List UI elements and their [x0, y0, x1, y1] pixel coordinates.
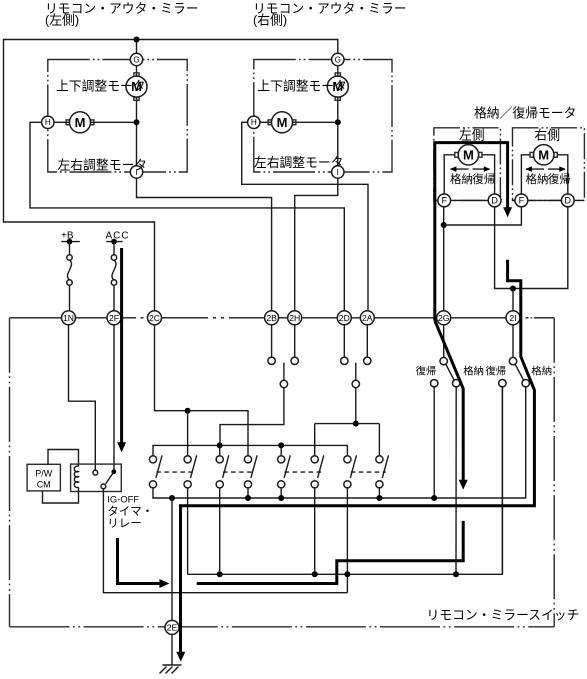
- svg-text:D: D: [565, 195, 572, 205]
- connector 2H: [288, 311, 302, 325]
- contact: retract (right): [522, 380, 529, 387]
- svg-text:格納: 格納: [531, 365, 552, 378]
- ground symbol: [163, 664, 182, 666]
- terminal F (right retract): [515, 194, 528, 207]
- node: retract contact on lower line: [453, 571, 459, 577]
- connector 2F: [107, 311, 121, 325]
- svg-text:リモコン・ミラースイッチ: リモコン・ミラースイッチ: [427, 607, 580, 622]
- wire: H to left/right motor to center node (left mirror): [54, 121, 69, 123]
- bold: lower route from relay line to retract contact: [197, 521, 464, 584]
- wire: 1N down to relay fixed contact: [69, 325, 96, 471]
- terminal H (right): [248, 116, 260, 128]
- svg-text:復帰: 復帰: [485, 365, 506, 378]
- contact: return (left): [431, 380, 438, 387]
- svg-text:2B: 2B: [266, 313, 277, 323]
- terminal G (left): [130, 53, 142, 65]
- contact: retract (left): [453, 380, 460, 387]
- connector 2C: [148, 311, 162, 325]
- svg-text:(左側): (左側): [45, 12, 79, 27]
- wire: H to motor to node (right mirror): [260, 121, 271, 123]
- wire: right H to 2A: [242, 122, 368, 310]
- wire: left D down, across, up to right D: [495, 206, 568, 288]
- switch pole 2: contacts and blade: [184, 456, 191, 463]
- wire 2I to common contact: [512, 325, 514, 358]
- wire: feed from 2C up left side and across top to G terminals: [4, 40, 338, 311]
- wire: down to pole 2: [187, 411, 189, 456]
- svg-text:(右側): (右側): [253, 12, 287, 27]
- IG-OFF timer relay box: [71, 464, 122, 491]
- svg-text:左側: 左側: [459, 128, 485, 143]
- selector blade (neutral): [355, 363, 357, 381]
- svg-text:格納: 格納: [450, 172, 473, 186]
- node: pole 3 on lower line: [217, 571, 223, 577]
- wire: retract contact down to lower line: [455, 387, 457, 574]
- wire: BH common down-left to top bus: [220, 388, 284, 446]
- svg-text:復帰: 復帰: [416, 365, 437, 378]
- wire: return contact down to bottom bus: [433, 387, 435, 498]
- terminal I (left): [130, 166, 142, 178]
- svg-text:上下調整モータ: 上下調整モータ: [257, 79, 347, 94]
- bold: ACC feed down to relay (arrow): [120, 248, 123, 445]
- relay moving terminal: [101, 484, 106, 489]
- P/W CM box: [27, 464, 60, 491]
- node: feed to pole 2: [185, 408, 191, 414]
- connector 2A: [360, 311, 374, 325]
- node: 2E tap on bottom bus: [169, 495, 175, 501]
- wire: left F down to 2G with junction: [443, 206, 445, 310]
- wire: left H to 2D: [30, 122, 344, 310]
- up/down adjust motor (left): [134, 73, 139, 76]
- stubs poles 4,5,8 to bottom bus: [247, 488, 249, 498]
- relay coil: [74, 466, 78, 487]
- switch pole 1: contacts and blade: [149, 456, 156, 463]
- mechanical linkage dashes: [156, 471, 194, 473]
- connector 2B: [265, 311, 279, 325]
- top bus of switch bank: [153, 445, 347, 455]
- relay pivot: [111, 469, 116, 474]
- svg-text:左右調整モータ: 左右調整モータ: [58, 158, 148, 173]
- svg-text:G: G: [133, 55, 139, 64]
- wire: F junction across to right F: [444, 206, 522, 225]
- switch pole 6: contacts and blade: [311, 456, 318, 463]
- node: center junction right mirror: [335, 119, 341, 125]
- mirror switch box: left edge (chain): [9, 318, 11, 627]
- up/down adjust motor (right): [335, 73, 340, 76]
- wire: distribution line to poles 6 and 8: [315, 423, 380, 425]
- long wires poles 2,3,6,7 down to lower line: [187, 488, 189, 574]
- blade closed to katakana-kakunou contact: [446, 364, 454, 380]
- svg-text:2E: 2E: [167, 622, 178, 632]
- svg-text:左右調整モータ: 左右調整モータ: [254, 155, 344, 170]
- left mirror box (chain line): [48, 60, 187, 173]
- svg-text:2F: 2F: [109, 313, 119, 323]
- wire: 2F down to relay pivot: [113, 325, 115, 472]
- connector 1N: [62, 311, 76, 325]
- terminal G (right): [332, 53, 344, 65]
- svg-text:ACC: ACC: [106, 231, 130, 242]
- switch pole 3: contacts and blade: [216, 456, 223, 463]
- terminal F (left retract): [438, 194, 451, 207]
- svg-text:M: M: [538, 147, 549, 162]
- wire 2A to contact: [366, 325, 368, 357]
- wire: 2C down to pole feed line: [155, 325, 249, 456]
- left retract box (chain line): [434, 128, 501, 201]
- svg-text:H: H: [45, 118, 51, 127]
- left/right adjust motor (right): [268, 120, 271, 125]
- node: F junction: [441, 222, 447, 228]
- direction arrows (right box): [526, 168, 544, 170]
- wire: G to motor to node to I (right mirror): [337, 66, 339, 77]
- node: center junction left mirror: [134, 119, 140, 125]
- terminal D (right retract): [561, 194, 574, 207]
- contact: return (right): [499, 380, 506, 387]
- svg-text:2I: 2I: [509, 313, 516, 323]
- terminal H (left): [42, 116, 54, 128]
- wire 2G to common contact: [443, 325, 445, 358]
- connector 2D: [337, 311, 351, 325]
- retract/return motor (left): [455, 152, 458, 157]
- switch pole 8: contacts and blade: [376, 456, 383, 463]
- node: return contact on bottom bus: [431, 495, 437, 501]
- wire: left G stub: [136, 40, 138, 54]
- bold: left retract box loop with down arrow: [435, 143, 508, 321]
- terminal I (right): [332, 166, 344, 178]
- wire: P/W CM to relay coil (top loop): [48, 450, 79, 467]
- svg-text:格納／復帰モータ: 格納／復帰モータ: [474, 105, 576, 120]
- right retract box (chain line): [513, 128, 585, 201]
- left/right adjust motor (left): [66, 120, 69, 125]
- +B feed bar and node: [61, 241, 80, 243]
- svg-text:2C: 2C: [149, 313, 160, 323]
- svg-text:M: M: [277, 115, 288, 130]
- wire 2B to contact: [271, 325, 273, 357]
- svg-text:2D: 2D: [339, 313, 350, 323]
- svg-text:復帰: 復帰: [472, 172, 495, 186]
- connector 2I: [506, 311, 520, 325]
- switch pole 4: contacts and blade: [244, 456, 251, 463]
- bold: resume to 2I and down through retract contact, across and down to ground (arrow): [181, 260, 535, 655]
- wire: right I to 2H: [295, 178, 338, 311]
- svg-text:上下調整モータ: 上下調整モータ: [56, 79, 146, 94]
- svg-text:2H: 2H: [289, 313, 300, 323]
- selector blade (neutral): [283, 363, 285, 381]
- node: pole 8 on bottom bus: [376, 495, 382, 501]
- svg-text:F: F: [441, 195, 447, 205]
- svg-text:格納: 格納: [463, 365, 484, 378]
- node: D line junction to 2I: [510, 286, 516, 292]
- mirror switch box: top edge with connector row: [10, 317, 137, 319]
- switch pole 5: contacts and blade: [278, 456, 285, 463]
- right mirror box (chain line): [254, 60, 392, 173]
- svg-text:P/W: P/W: [35, 468, 53, 478]
- svg-text:2A: 2A: [362, 313, 373, 323]
- contact circles 2D/2A selector: [341, 357, 348, 364]
- svg-text:H: H: [251, 118, 257, 127]
- retract motor wires (left box): [444, 155, 455, 195]
- relay fixed contact: [93, 470, 98, 475]
- node: pole 5 on bottom bus: [278, 495, 284, 501]
- svg-text:D: D: [491, 195, 498, 205]
- retract/return motor (right): [530, 152, 533, 157]
- wire: G to up/down motor to center node to I (left mirror): [136, 66, 138, 77]
- wire: bottom bus tap down to 2E and ground: [171, 498, 173, 620]
- wire: left I to 2B: [137, 178, 272, 311]
- svg-text:CM: CM: [37, 479, 51, 489]
- fuse +B: [69, 242, 71, 255]
- svg-text:復帰: 復帰: [548, 172, 571, 186]
- node: pole 4 on bottom bus: [245, 495, 251, 501]
- svg-text:IG-OFF: IG-OFF: [107, 493, 139, 504]
- direction arrows (left box): [451, 168, 469, 170]
- terminal D (left retract): [488, 194, 501, 207]
- bold: 2G down through retract contact (arrow): [435, 321, 463, 483]
- svg-text:タイマ・: タイマ・: [107, 505, 153, 518]
- bold: relay output L-arrow: [118, 538, 162, 584]
- wire 2H to contact: [294, 325, 296, 357]
- svg-text:M: M: [463, 147, 474, 162]
- blade closed to katakana-kakunou contact (right): [515, 364, 524, 380]
- mirror switch box: right edge (chain): [553, 318, 555, 627]
- svg-text:2G: 2G: [438, 313, 450, 323]
- bottom bus of switch bank: [153, 387, 526, 498]
- node: bus junction pole 3: [217, 442, 223, 448]
- node: bus junction pole 5: [278, 442, 284, 448]
- svg-text:M: M: [75, 115, 86, 130]
- svg-text:1N: 1N: [63, 313, 74, 323]
- contact circles 2B/2H selector: [268, 357, 275, 364]
- wire 2D to contact: [343, 325, 345, 357]
- connector 2G: [437, 311, 451, 325]
- mirror switch box: bottom edge (chain) through 2E: [10, 626, 555, 628]
- svg-text:格納: 格納: [526, 172, 549, 186]
- retract motor wires (right box): [521, 155, 530, 195]
- lower junction line: [188, 387, 503, 574]
- svg-text:F: F: [519, 195, 525, 205]
- node: DA common distribution junction: [353, 421, 359, 427]
- svg-text:右側: 右側: [534, 128, 560, 143]
- connector 2E: [165, 620, 179, 634]
- node: junction on top feed at left G: [134, 37, 140, 43]
- wire: DA common down to distribution: [355, 388, 357, 424]
- fuse ACC: [113, 242, 115, 255]
- svg-text:G: G: [335, 55, 341, 64]
- wire: relay output down and right to pole 7: [103, 489, 347, 593]
- node: pole 7 on lower line: [344, 571, 350, 577]
- wire: return contact (right) down to lower junction line: [501, 387, 503, 574]
- svg-text:リレー: リレー: [107, 518, 142, 530]
- wire: coil bottom to P/W CM (bottom loop): [43, 487, 79, 503]
- switch pole 7: contacts and blade: [344, 456, 351, 463]
- wire: D junction down to 2I: [512, 289, 514, 311]
- node: pole 6 on lower line: [312, 571, 318, 577]
- relay blade: [106, 472, 114, 484]
- ACC feed bar and node: [106, 241, 122, 243]
